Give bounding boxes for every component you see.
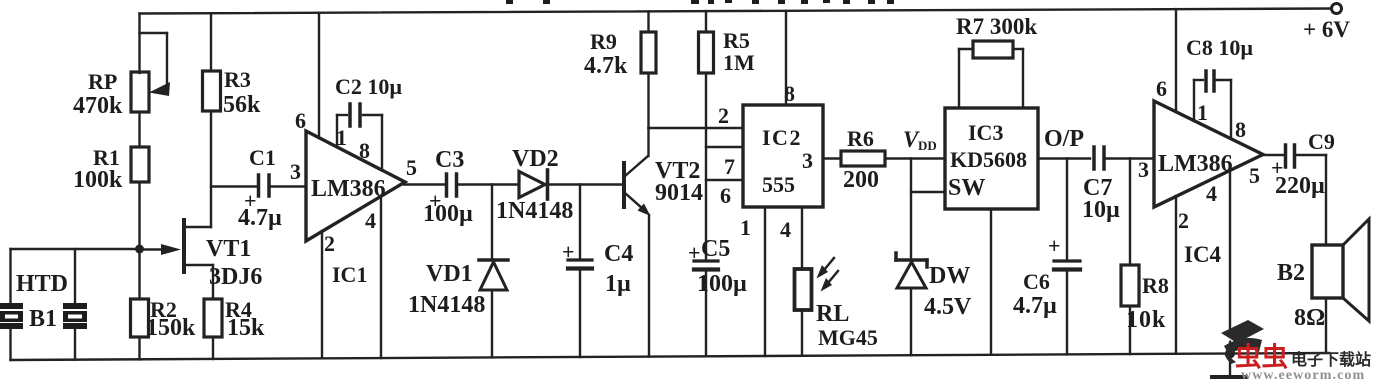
resistor R1	[131, 147, 149, 182]
svg-text:10µ: 10µ	[1082, 197, 1120, 223]
svg-text:1N4148: 1N4148	[496, 198, 573, 224]
svg-text:R9: R9	[590, 29, 617, 54]
bottom ground rail	[11, 353, 1330, 360]
svg-text:1: 1	[336, 125, 347, 150]
svg-text:MG45: MG45	[818, 325, 878, 350]
svg-text:C2 10µ: C2 10µ	[335, 74, 402, 99]
wire RP top lead	[138, 14, 140, 74]
wire rung pin6	[706, 179, 743, 181]
wire IC1 output pin5	[404, 183, 444, 185]
svg-text:LM386: LM386	[311, 176, 386, 202]
transistor VT2 9014	[622, 163, 626, 207]
wire C9 to speaker	[1297, 154, 1327, 156]
svg-text:2: 2	[324, 231, 335, 256]
node gate junction	[135, 245, 144, 254]
svg-text:4: 4	[1206, 181, 1217, 206]
wire C3 to VD2/VD1 node	[459, 183, 520, 185]
svg-text:3: 3	[290, 159, 301, 184]
wire R4 to ground	[212, 337, 214, 359]
svg-text:8: 8	[1235, 117, 1246, 142]
wire IC4 pin4 to ground	[1229, 170, 1231, 354]
svg-text:电子下载站: 电子下载站	[1291, 350, 1371, 369]
svg-text:R3: R3	[224, 67, 251, 92]
resistor R9	[647, 11, 649, 32]
speaker B2	[1312, 245, 1343, 298]
svg-text:+ 6V: + 6V	[1303, 17, 1350, 42]
svg-text:7: 7	[724, 154, 735, 179]
svg-text:4.5V: 4.5V	[924, 294, 972, 320]
svg-text:www.eeworm.com: www.eeworm.com	[1241, 368, 1365, 381]
svg-text:100µ: 100µ	[423, 201, 473, 227]
wire to C1	[211, 185, 256, 187]
svg-text:3: 3	[1138, 157, 1149, 182]
svg-text:470k: 470k	[73, 93, 123, 119]
svg-text:C8 10µ: C8 10µ	[1186, 35, 1253, 60]
resistor R4	[204, 299, 222, 337]
svg-text:1: 1	[740, 215, 751, 240]
wire R1 to gate node	[138, 182, 140, 299]
svg-text:DD: DD	[918, 138, 937, 153]
wire RP wiper loop	[140, 32, 168, 34]
wire top +6V rail	[140, 9, 1332, 14]
wire VD2 to VT2 base	[549, 183, 622, 185]
wire IC4 pin6	[1175, 9, 1177, 112]
svg-text:DW: DW	[929, 263, 970, 289]
svg-text:VT1: VT1	[206, 236, 251, 262]
capacitor C7	[1092, 147, 1096, 169]
wire node to microphone branch	[11, 248, 140, 250]
svg-text:150k: 150k	[146, 315, 196, 341]
svg-text:C4: C4	[604, 241, 633, 267]
svg-text:4: 4	[365, 208, 376, 233]
svg-text:VD1: VD1	[426, 261, 473, 287]
zener DW	[910, 159, 912, 261]
wire C1 to IC1 pin3	[271, 185, 306, 187]
capacitor C3	[445, 174, 449, 196]
svg-text:6: 6	[720, 183, 731, 208]
svg-text:R7 300k: R7 300k	[956, 14, 1037, 39]
wire IC3 ground pin	[990, 209, 992, 355]
wire IC2 pin4 to RL	[801, 207, 803, 269]
svg-text:IC1: IC1	[332, 262, 367, 287]
+6V terminal	[1332, 4, 1342, 14]
svg-text:1N4148: 1N4148	[408, 292, 485, 318]
music IC3 KD5608 box	[945, 108, 1038, 209]
capacitor C8	[1193, 80, 1195, 121]
svg-text:15k: 15k	[227, 315, 265, 341]
wire RP to R1	[138, 112, 140, 147]
svg-text:C3: C3	[435, 147, 464, 173]
svg-text:6: 6	[1156, 76, 1167, 101]
svg-text:+: +	[688, 240, 701, 265]
svg-text:R6: R6	[847, 126, 874, 151]
wire O/P output	[1038, 157, 1090, 159]
svg-text:4.7µ: 4.7µ	[1013, 293, 1057, 319]
wire IC2 pin1 to ground	[764, 207, 766, 356]
wire R6 to IC3 Vdd	[885, 157, 945, 159]
capacitor C5	[694, 259, 718, 262]
svg-text:RP: RP	[88, 69, 117, 94]
wire R5 down to C5	[705, 73, 707, 261]
capacitor C2	[336, 115, 338, 147]
top title fragments	[506, 0, 894, 4]
transducer B1 left element	[0, 303, 23, 329]
wire SW rung	[911, 191, 945, 193]
svg-text:SW: SW	[948, 175, 985, 201]
svg-text:200: 200	[843, 167, 879, 193]
svg-text:220µ: 220µ	[1275, 173, 1325, 199]
svg-text:B1: B1	[29, 306, 57, 332]
op-amp IC1 LM386 triangle	[306, 131, 405, 241]
op-amp IC4 LM386 triangle	[1154, 101, 1263, 207]
wire IC2 pin8	[785, 11, 787, 105]
svg-text:5: 5	[1249, 163, 1260, 188]
svg-text:LM386: LM386	[1158, 151, 1233, 177]
svg-text:4.7µ: 4.7µ	[238, 205, 282, 231]
svg-text:8: 8	[359, 138, 370, 163]
svg-text:IC3: IC3	[968, 120, 1003, 145]
svg-text:VD2: VD2	[512, 146, 559, 172]
wire IC4 pin5 out	[1263, 154, 1283, 156]
resistor R6	[841, 151, 885, 166]
photoresistor RL MG45	[795, 269, 812, 310]
transistor VT1 (JFET 3DJ6)	[182, 220, 186, 272]
svg-text:56k: 56k	[223, 92, 261, 118]
resistor R2	[131, 299, 149, 337]
wire R3 top lead	[210, 13, 212, 71]
wire collector node to IC2 pin2	[649, 127, 744, 129]
svg-text:10k: 10k	[1126, 307, 1166, 333]
diode VD1	[491, 185, 493, 259]
capacitor C4	[579, 185, 581, 259]
wire B1 left leads	[9, 249, 11, 304]
potentiometer RP	[131, 72, 149, 112]
svg-text:KD5608: KD5608	[950, 147, 1027, 172]
wire IC1 pin6	[318, 13, 320, 138]
timer IC2 555 box	[743, 105, 823, 207]
svg-text:2: 2	[718, 103, 729, 128]
svg-text:100µ: 100µ	[697, 271, 747, 297]
svg-text:8Ω: 8Ω	[1294, 305, 1325, 331]
resistor R8	[1129, 159, 1131, 266]
ground stub	[1229, 354, 1231, 377]
svg-text:C5: C5	[701, 236, 730, 262]
svg-text:O/P: O/P	[1044, 126, 1084, 152]
wire IC1 pin4 to ground	[380, 196, 382, 358]
wire R2 to ground	[138, 337, 140, 360]
svg-text:IC4: IC4	[1184, 242, 1222, 267]
svg-text:C9: C9	[1308, 129, 1335, 154]
svg-text:+: +	[1048, 233, 1061, 258]
resistor R7	[958, 49, 960, 108]
resistor R5	[705, 11, 707, 32]
wire IC2 pin3 out	[823, 157, 841, 159]
wire R3 to VT1 drain	[210, 111, 212, 227]
wire rung pin7	[706, 146, 743, 148]
svg-text:1: 1	[1197, 100, 1208, 125]
node ground junction	[1225, 349, 1235, 359]
capacitor C6	[1066, 159, 1068, 262]
transducer B1 right element	[63, 303, 87, 329]
svg-text:6: 6	[295, 108, 306, 133]
svg-text:B2: B2	[1277, 260, 1305, 286]
svg-text:5: 5	[406, 155, 417, 180]
svg-text:C1: C1	[249, 145, 276, 170]
svg-text:1M: 1M	[723, 50, 755, 75]
svg-text:3: 3	[802, 148, 813, 173]
diode VD2	[519, 172, 545, 198]
svg-text:C6: C6	[1023, 269, 1050, 294]
svg-text:IC2: IC2	[762, 125, 802, 150]
svg-text:+: +	[562, 239, 575, 264]
svg-text:2: 2	[1178, 208, 1189, 233]
capacitor C1	[257, 175, 261, 196]
svg-text:HTD: HTD	[16, 271, 68, 297]
svg-text:9014: 9014	[655, 180, 703, 206]
svg-text:4: 4	[780, 217, 791, 242]
wire IC4 pin2 to ground	[1175, 196, 1177, 354]
wire B1 right leads	[74, 249, 76, 304]
svg-text:RL: RL	[816, 301, 849, 327]
svg-text:555: 555	[762, 172, 795, 197]
svg-text:4.7k: 4.7k	[584, 53, 628, 79]
capacitor C9	[1284, 145, 1288, 167]
svg-text:100k: 100k	[73, 167, 123, 193]
svg-text:R8: R8	[1142, 273, 1169, 298]
wire IC1 pin2 to ground	[321, 231, 323, 358]
resistor R3	[203, 71, 221, 111]
svg-text:8: 8	[784, 81, 795, 106]
svg-text:3DJ6: 3DJ6	[209, 264, 262, 290]
svg-text:1µ: 1µ	[605, 271, 631, 297]
watermark graduation cap	[1221, 320, 1264, 364]
